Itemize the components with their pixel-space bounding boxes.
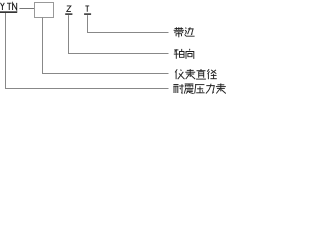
underline under YTN: [0, 11, 17, 13]
wire from YTN to 耐震压力表: [6, 13, 169, 89]
label 耐震压力表 (shock-resistant pressure gauge): [173, 83, 226, 93]
label YTN (model prefix): [1, 3, 17, 10]
wire from T to 带边: [88, 15, 169, 32]
underline under Z: [65, 13, 72, 15]
label 仪表直径 (instrument diameter): [175, 69, 217, 79]
box (diameter placeholder): [35, 3, 54, 18]
wire from Z to 轴向: [69, 15, 169, 53]
label 轴向 (axial): [174, 49, 194, 59]
label 带边 (with edge): [174, 27, 195, 37]
label Z: [67, 6, 71, 11]
wire from YTN to box: [19, 8, 34, 10]
label T: [85, 6, 89, 12]
wire from box to 仪表直径: [43, 18, 169, 74]
underline under T: [84, 13, 91, 15]
